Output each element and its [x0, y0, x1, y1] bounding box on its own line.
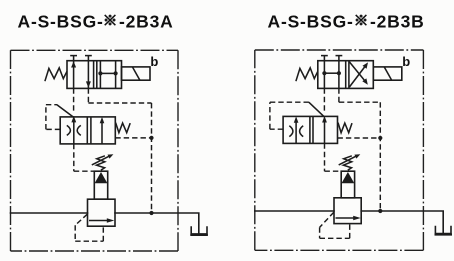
pilot line: valve left port down to throttle valve (dashed): [73, 88, 75, 112]
main valve flow arrow: [89, 218, 114, 223]
solenoid coil b (right diagram): [373, 67, 402, 80]
solenoid coil b (left diagram): [122, 67, 151, 80]
pilot line: horizontal to right junction (dashed): [88, 102, 151, 104]
main pressure line (left of valve, right diagram): [255, 210, 334, 212]
throttle position: flow line with arrow and orifice: [67, 116, 81, 144]
enclosure frame (left diagram): [11, 50, 179, 251]
vent line: throttle valve down (dashed, right diagram): [324, 143, 326, 171]
main relief valve body (left diagram): [88, 199, 116, 226]
pilot line: valve right port down (dashed, right diagram): [338, 88, 340, 102]
pilot line: vertical down to main line (dashed): [151, 103, 153, 213]
tank symbol (right diagram): [435, 227, 453, 235]
throttle position: flow line with arrow and orifice (right diagram): [289, 116, 303, 143]
title A-S-BSG-*-2B3A: [18, 12, 174, 32]
junction node (vent line / main line, right diagram): [378, 209, 382, 213]
throttle valve body (right diagram): [283, 116, 337, 143]
tank symbol (left diagram): [190, 227, 208, 235]
free-flow position: line with up arrow (right diagram): [322, 116, 327, 143]
svg-text:-2B3B: -2B3B: [370, 12, 425, 32]
throttle pilot line to junction (dashed): [115, 137, 151, 139]
junction node (throttle pilot / vent line, right diagram): [378, 136, 382, 140]
pilot pick-off loop (dashed rectangle left of throttle valve): [46, 105, 60, 130]
pilot pick-off loop (dashed, left of throttle valve, right diagram): [270, 102, 309, 129]
pilot line: horizontal to right junction (dashed, right diagram): [339, 101, 380, 103]
adjustable spring of pilot relief valve (right diagram): [339, 154, 361, 170]
pilot relief valve body with poppet (left diagram): [94, 171, 107, 199]
pilot solenoid valve body (right): [318, 61, 374, 89]
main relief valve body (right diagram): [334, 198, 361, 224]
pilot actuation diagonal into throttle arrow: [57, 105, 74, 118]
pilot actuation diagonal into throttle arrow (right diagram): [309, 102, 325, 117]
reference mark (komejirushi) in right title: [356, 15, 367, 26]
drain line loop (dashed, under main valve, right diagram): [320, 212, 350, 238]
svg-text:-2B3A: -2B3A: [119, 12, 174, 32]
drain line loop (dashed, under main valve): [75, 214, 103, 241]
spring (throttle valve right diagram, right side): [338, 123, 352, 133]
throttle valve body (left diagram): [60, 117, 115, 144]
pilot line: vertical down to main line (dashed, right diagram): [379, 102, 381, 211]
main line to tank (right diagram): [361, 211, 443, 234]
vent line: throttle valve down (dashed): [73, 144, 75, 171]
free-flow position: line with up arrow: [100, 117, 105, 144]
crossed flow arrows (pilot valve right box, right diagram): [349, 62, 368, 87]
svg-text:b: b: [402, 54, 410, 69]
junction node (throttle pilot / vent line): [149, 136, 153, 140]
svg-text:b: b: [150, 54, 158, 69]
title A-S-BSG-*-2B3B: [268, 12, 425, 32]
pilot relief valve body with poppet (right diagram): [341, 171, 354, 198]
spring (pilot valve right diagram, left side): [296, 68, 318, 81]
vent line: horizontal to pilot relief valve (dashed, right diagram): [325, 170, 342, 172]
svg-text:A-S-BSG-: A-S-BSG-: [268, 12, 354, 32]
pilot line: valve left port down to throttle valve (dashed, right diagram): [323, 88, 325, 112]
adjustable spring of pilot relief valve: [92, 154, 114, 170]
blocked-ports bar with dots (pilot valve left box, right diagram): [321, 56, 342, 89]
pilot solenoid valve body (left): [67, 61, 122, 89]
junction node (vent line / main line): [149, 211, 153, 215]
reference mark (komejirushi) in left title: [105, 15, 116, 26]
main line to tank (right of valve): [115, 213, 199, 234]
vent line: horizontal to pilot relief valve (dashed): [74, 170, 95, 172]
enclosure frame (right diagram): [255, 50, 424, 250]
blocked-ports bar with dots (pilot valve right box): [98, 61, 117, 89]
throttle pilot line to junction (dashed, right diagram): [338, 137, 381, 139]
port T line with down arrow (pilot valve left box): [85, 56, 92, 89]
spring (pilot valve, left side): [45, 68, 67, 81]
spring (throttle valve, right side): [116, 123, 131, 133]
main pressure line (left of valve): [11, 212, 88, 214]
main valve flow arrow (right diagram): [336, 216, 361, 221]
pilot line: valve right port down (dashed): [87, 88, 89, 103]
svg-text:A-S-BSG-: A-S-BSG-: [18, 12, 104, 32]
port P line with up arrow (pilot valve left box): [70, 56, 77, 89]
